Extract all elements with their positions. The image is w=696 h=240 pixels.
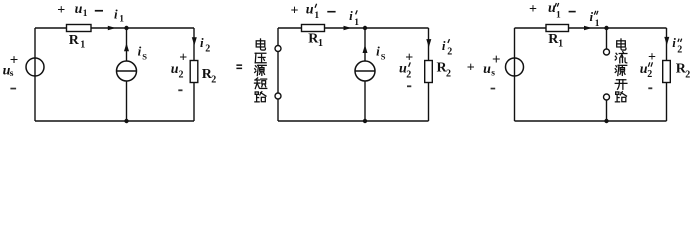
svg-text:2: 2 <box>205 44 210 55</box>
wire: c1 left <box>34 28 36 121</box>
svg-text:s: s <box>491 68 495 78</box>
resistor R2 of c3 <box>663 61 671 83</box>
voltage source us <box>26 58 44 76</box>
svg-text:i: i <box>589 9 593 24</box>
voltage source us of c3 <box>506 58 524 76</box>
label - of us c3 <box>491 88 496 90</box>
svg-text:1: 1 <box>354 18 359 28</box>
svg-text:s: s <box>10 69 14 79</box>
label - of u2p <box>407 85 411 87</box>
svg-text:i: i <box>138 44 142 59</box>
svg-text:+: + <box>10 52 19 68</box>
label - of u1p <box>327 11 335 13</box>
svg-text:1: 1 <box>119 15 124 25</box>
wire: c2 bottom <box>278 120 429 122</box>
label - of u1 <box>95 10 103 12</box>
svg-text:2: 2 <box>446 68 451 79</box>
arrow of is <box>124 43 129 51</box>
svg-text:1: 1 <box>318 38 323 49</box>
svg-text:2: 2 <box>677 45 682 56</box>
current source is of c2 <box>355 61 375 81</box>
terminal circle c2 lower <box>275 93 281 99</box>
wire: c1 right <box>193 28 195 121</box>
svg-text:+: + <box>529 2 537 17</box>
svg-text:2: 2 <box>211 74 216 85</box>
label - of u2 <box>178 89 182 91</box>
wire: c2 middle branch <box>364 28 366 121</box>
wire: c2 left short <box>277 28 279 121</box>
svg-text:1: 1 <box>558 38 563 49</box>
wire: c3 left <box>514 28 516 121</box>
svg-text:i: i <box>442 38 446 53</box>
svg-text:2: 2 <box>447 46 452 57</box>
svg-text:R: R <box>69 33 80 48</box>
resistor R1 of c2 <box>302 25 325 32</box>
arrow i1p <box>344 26 352 31</box>
svg-text:+: + <box>179 50 187 65</box>
svg-text:i: i <box>376 44 380 59</box>
wire: c2 right <box>428 28 430 121</box>
svg-text:i: i <box>114 6 118 21</box>
svg-text:+: + <box>57 3 65 18</box>
arrow i2pp <box>664 37 669 45</box>
terminal circle c3 upper <box>604 49 610 55</box>
svg-text:i: i <box>200 35 204 50</box>
arrow of is c2 <box>363 45 368 53</box>
svg-text:1: 1 <box>80 39 85 50</box>
svg-text:u: u <box>75 2 83 17</box>
junction dot c3 top <box>604 26 608 30</box>
wire: c3 bottom <box>515 120 667 122</box>
svg-text:2: 2 <box>647 69 652 80</box>
arrow i1 <box>108 26 116 31</box>
wire: c3 middle lower stub <box>606 100 608 121</box>
svg-text:+: + <box>492 52 501 68</box>
svg-text:2: 2 <box>685 69 690 80</box>
svg-text:1: 1 <box>314 11 319 21</box>
resistor R2 <box>190 61 198 83</box>
junction dot c2 top <box>363 26 367 30</box>
svg-text:1: 1 <box>556 10 561 20</box>
svg-text:2: 2 <box>406 69 411 80</box>
junction dot c3 bottom <box>604 119 608 123</box>
junction dot c2 bottom <box>363 119 367 123</box>
svg-text:2: 2 <box>179 69 184 80</box>
wire: c3 middle upper stub <box>606 28 608 49</box>
terminal circle c2 upper <box>275 46 281 52</box>
arrow i1pp <box>584 26 592 31</box>
arrow i2p <box>426 39 431 47</box>
label - of u1pp <box>569 11 576 13</box>
junction dot c1 top <box>124 26 128 30</box>
current source is <box>117 61 137 81</box>
svg-text:i: i <box>349 8 353 23</box>
svg-text:u: u <box>171 62 179 77</box>
svg-text:1: 1 <box>83 9 88 19</box>
svg-text:u: u <box>483 62 491 77</box>
equals sign <box>236 64 242 66</box>
label - of us <box>10 88 16 90</box>
svg-text:+: + <box>291 3 299 18</box>
wire: c3 right <box>666 28 668 121</box>
wire: c1 bottom <box>35 120 194 122</box>
resistor R2 of c2 <box>425 61 433 83</box>
note text: current source opened <box>617 39 626 50</box>
resistor R1 of c3 <box>546 25 569 32</box>
svg-text:S: S <box>142 51 147 61</box>
terminal circle c3 lower <box>604 94 610 100</box>
note text: voltage source shorted <box>256 39 265 50</box>
wire: c1 top <box>35 27 194 29</box>
junction dot c1 bottom <box>124 119 128 123</box>
svg-text:u: u <box>306 2 314 17</box>
svg-text:i: i <box>672 35 676 50</box>
svg-text:S: S <box>381 51 386 61</box>
wire: c3 top <box>515 27 667 29</box>
wire: c1 middle branch <box>126 28 128 121</box>
wire: c2 top <box>278 27 429 29</box>
svg-text:1: 1 <box>595 19 600 29</box>
label - of u2pp <box>648 87 652 89</box>
svg-text:+: + <box>467 60 475 75</box>
arrow i2 <box>192 37 197 45</box>
svg-text:u: u <box>548 1 556 16</box>
resistor R1 <box>67 25 92 32</box>
